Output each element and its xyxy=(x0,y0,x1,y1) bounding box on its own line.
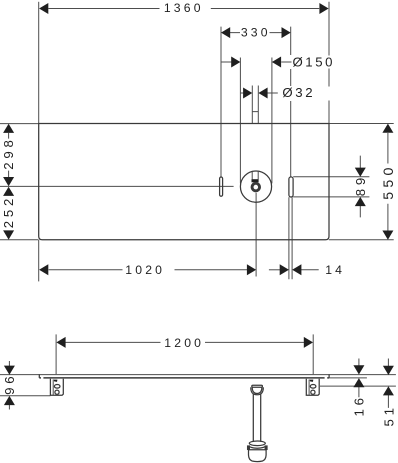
arrow Ø150 left xyxy=(231,57,240,68)
left bracket xyxy=(50,379,63,396)
trap collar xyxy=(249,441,265,446)
dim 16 dimension line segments xyxy=(358,359,360,398)
arrow Ø150 right xyxy=(272,57,281,68)
arrow 51 top xyxy=(383,366,394,375)
dim 96 bottom extension xyxy=(0,395,50,397)
arrow 252 bottom xyxy=(3,230,14,239)
tap hole notch tab xyxy=(252,179,259,182)
trap collar right nub xyxy=(265,446,267,449)
dim 16 bottom extension (slab bottom extended) xyxy=(329,377,367,379)
arrow 1020 right xyxy=(247,264,256,275)
arrow Ø32 right xyxy=(258,88,267,99)
dim 51 bottom extension (rail bottom) xyxy=(320,385,396,387)
dim 1020 left extension xyxy=(38,240,40,282)
dim 1200 extension left xyxy=(55,334,57,374)
trap collar left nub xyxy=(248,446,250,449)
svg-text:96: 96 xyxy=(2,373,17,395)
svg-text:51: 51 xyxy=(381,404,396,426)
svg-text:1200: 1200 xyxy=(164,336,204,350)
dim 550 extension bottom xyxy=(329,239,394,241)
right bracket oval hole xyxy=(310,384,316,388)
right bracket round hole xyxy=(311,390,315,394)
tap platform circle Ø150 xyxy=(240,171,271,202)
drain flange U outer xyxy=(251,387,264,395)
dim Ø32 leader left xyxy=(240,92,244,94)
dim Ø150 leader right xyxy=(281,61,291,63)
left bracket oval hole xyxy=(54,384,60,388)
arrow 16 top xyxy=(353,365,364,374)
arrow 16 bottom xyxy=(353,378,364,387)
dim 89 extension top xyxy=(293,176,369,178)
arrow 1020 left xyxy=(39,264,48,275)
dim 89 dimension line segments xyxy=(359,156,361,218)
svg-text:16: 16 xyxy=(352,394,367,416)
dim Ø32 leader right xyxy=(267,92,278,94)
arrow 89 bottom xyxy=(355,197,366,206)
arrow 298 top xyxy=(3,124,14,133)
svg-text:Ø150: Ø150 xyxy=(292,54,335,69)
svg-text:14: 14 xyxy=(325,263,345,277)
left dims bottom extension line xyxy=(0,239,38,241)
right bracket inner line xyxy=(308,380,310,395)
slab bottom edge with end notches xyxy=(39,377,329,379)
right bracket hook tab xyxy=(310,380,314,382)
arrow 1360 right xyxy=(319,3,328,14)
arrow Ø32 left xyxy=(243,88,252,99)
left bracket inner line xyxy=(52,380,54,395)
tap hole slot lines inside circle xyxy=(252,172,258,180)
centerline through basin xyxy=(0,185,234,187)
svg-text:298: 298 xyxy=(1,136,16,169)
dim 1360 dimension line xyxy=(48,8,319,10)
slab top edge + extensions (one line) xyxy=(0,374,396,376)
dim 1360 extension line right (broken at texts) xyxy=(328,2,330,124)
dim 550 extension top xyxy=(329,123,394,125)
left slot xyxy=(220,177,223,196)
arrow 252 top xyxy=(3,187,14,196)
right bracket xyxy=(306,379,319,396)
dim 89 extension bottom xyxy=(293,196,369,198)
dim 1360 extension line left xyxy=(38,2,40,124)
arrow 1200 left xyxy=(56,337,65,348)
arrow 550 top xyxy=(382,124,393,133)
dim Ø150 leader left xyxy=(222,61,233,63)
arrow 298 bottom xyxy=(3,177,14,186)
svg-text:252: 252 xyxy=(1,195,16,228)
arrow 1360 left xyxy=(39,3,48,14)
arrow 550 bottom xyxy=(382,231,393,240)
svg-text:1020: 1020 xyxy=(125,263,165,277)
drain tailpipe xyxy=(253,394,260,442)
arrow 14 right xyxy=(292,264,301,275)
left dims top extension line xyxy=(0,123,38,125)
tap hole Ø32 ring xyxy=(252,183,259,191)
arrow 330 right xyxy=(282,27,291,38)
dim 330 extension line left (down to left slot) xyxy=(220,27,222,177)
dim 1020 right extension (tap hole centerline) xyxy=(255,193,257,277)
dim 1200 extension right xyxy=(312,334,314,374)
arrow 330 left xyxy=(221,27,230,38)
faucet hole slot through back ledge xyxy=(252,86,258,124)
arrow 51 bottom xyxy=(383,386,394,395)
trap cup joint line xyxy=(249,449,267,451)
slab end caps xyxy=(39,374,329,378)
dim 14 extension lines (from overflow slot down) xyxy=(289,197,292,279)
svg-text:Ø32: Ø32 xyxy=(282,85,315,100)
arrow 96 bottom xyxy=(4,396,15,405)
dim 330 extension line right (down to overflow slot) xyxy=(290,27,292,177)
svg-text:330: 330 xyxy=(241,26,271,40)
trap cup xyxy=(249,446,267,462)
svg-text:550: 550 xyxy=(381,163,397,199)
drain flange cap xyxy=(252,385,263,387)
dim 14 leader left xyxy=(269,269,280,271)
left bracket round hole xyxy=(55,390,59,394)
arrow 1200 right xyxy=(304,337,313,348)
dim Ø150 extension lines down to circle xyxy=(240,58,272,184)
dim 51 dimension line segments xyxy=(387,359,389,408)
dim 1200 dimension line xyxy=(65,341,305,343)
dim 96 dimension line segments xyxy=(8,361,10,410)
dim 330 dimension line xyxy=(230,32,282,34)
basin outline (plan) xyxy=(39,124,329,240)
dim 550 dimension line segments xyxy=(387,133,389,231)
dim 1020 dimension line xyxy=(49,269,248,271)
trap collar lower arc xyxy=(249,446,265,448)
arrow 96 top xyxy=(4,366,15,375)
dim 14 leader right xyxy=(301,269,319,271)
left bracket hook tab xyxy=(54,380,58,382)
arrow 89 top xyxy=(355,168,366,177)
svg-text:1360: 1360 xyxy=(164,1,204,15)
arrow 14 left xyxy=(280,264,289,275)
overflow slot xyxy=(289,177,293,197)
drain flange U inner xyxy=(252,387,262,393)
svg-text:89: 89 xyxy=(353,174,368,196)
dim 298-252 dimension line segments xyxy=(8,133,10,177)
